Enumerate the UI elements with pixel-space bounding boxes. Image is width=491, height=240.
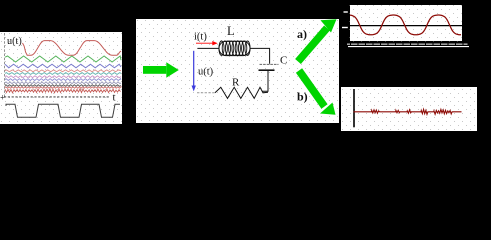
- svg-text:i(t): i(t): [194, 31, 207, 42]
- harmonic 1: red sine: [23, 41, 122, 56]
- wire: capacitor down to bottom right corner: [262, 71, 268, 91]
- svg-text:u(t): u(t): [7, 36, 22, 47]
- green arrow a) up-right: [298, 19, 337, 61]
- svg-text:t: t: [113, 92, 116, 104]
- svg-text:L: L: [227, 24, 235, 38]
- current arrow i(t) (red): [196, 41, 218, 45]
- svg-text:a): a): [297, 27, 307, 41]
- partial sum: noisy red trace: [5, 89, 121, 93]
- output sine (dark red): [350, 15, 461, 35]
- harmonic 9: cyan zigzag: [5, 73, 121, 75]
- zero axis: [350, 25, 462, 27]
- inductor L coil: [219, 41, 250, 55]
- center circuit panel background: [136, 19, 339, 123]
- harmonic 7: salmon zigzag: [5, 70, 121, 72]
- white tick upper: [344, 11, 348, 12]
- svg-text:b): b): [297, 89, 308, 103]
- svg-text:u(t): u(t): [198, 67, 214, 78]
- harmonic 15: gray-blue zigzag: [5, 82, 121, 84]
- capacitor C bottom plate: [259, 69, 275, 71]
- gray dashed lead wire: [197, 92, 215, 94]
- harmonic 11: magenta zigzag: [5, 76, 121, 78]
- top-right scope panel background: [350, 5, 463, 42]
- harmonic 17: dark gray zigzag: [5, 85, 121, 87]
- harmonic 13: violet zigzag: [5, 79, 121, 81]
- big green input arrow: [143, 62, 179, 77]
- wire: coil to top right corner and down: [250, 48, 270, 63]
- resistor R zigzag: [215, 87, 268, 98]
- scope y axis bar: [353, 89, 355, 127]
- harmonic 5: blue wave: [5, 64, 121, 68]
- wire: top left to coil: [198, 47, 221, 49]
- t axis (dashed with ticks): [4, 96, 110, 98]
- svg-text:R: R: [232, 77, 240, 89]
- green arrow b) down-right: [299, 71, 336, 115]
- time axis underline (dashed): [347, 43, 468, 45]
- bottom-right scope panel background: [341, 87, 477, 131]
- white tick at zero axis: [342, 27, 348, 28]
- voltage arrow u(t) (blue): [192, 51, 196, 92]
- square wave: [6, 104, 120, 117]
- svg-text:+: +: [0, 94, 5, 104]
- harmonic 19: small red zigzag: [5, 87, 121, 88]
- flat output trace with noise bursts (dark red): [354, 109, 462, 114]
- left waveform panel background: [0, 32, 122, 124]
- capacitor C top plate: [260, 63, 279, 65]
- harmonic 3: green triangle wave: [5, 56, 121, 62]
- svg-text:C: C: [280, 55, 287, 67]
- y axis (dashed): [4, 33, 6, 97]
- time axis underline (solid): [348, 46, 469, 48]
- scope left border bar: [348, 4, 350, 41]
